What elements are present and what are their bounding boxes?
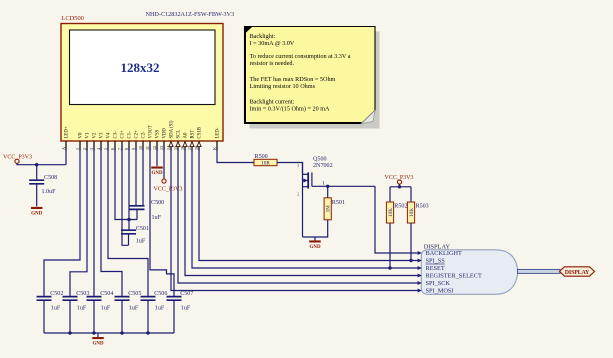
svg-text:VSS: VSS bbox=[156, 129, 161, 138]
svg-text:13: 13 bbox=[159, 146, 164, 150]
svg-text:GND: GND bbox=[309, 245, 321, 250]
svg-text:C3-: C3- bbox=[114, 131, 119, 139]
wire pin 12 VSS to ground bbox=[156, 148, 158, 166]
svg-text:2: 2 bbox=[297, 193, 299, 197]
svg-text:R503: R503 bbox=[416, 204, 429, 210]
wire R501 top lead bbox=[327, 186, 329, 198]
svg-text:1uF: 1uF bbox=[155, 305, 165, 311]
LCD pin 15 stub bbox=[177, 141, 179, 151]
wire pin 15 to SPI_SCK bbox=[178, 148, 418, 283]
svg-text:Backlight:: Backlight: bbox=[250, 33, 276, 40]
junction ground rail x=148 bbox=[146, 331, 149, 334]
svg-text:1uF: 1uF bbox=[51, 305, 61, 311]
svg-text:7: 7 bbox=[117, 148, 122, 150]
LCD pin 2 stub bbox=[86, 141, 88, 151]
svg-text:RESET: RESET bbox=[426, 265, 445, 272]
svg-text:A0: A0 bbox=[184, 132, 189, 138]
wire pin 17 to RESET bbox=[192, 148, 418, 268]
svg-text:C505: C505 bbox=[128, 291, 141, 297]
signal harness DISPLAY body bbox=[421, 250, 518, 294]
svg-text:C500: C500 bbox=[151, 200, 164, 206]
wire pin 1 to C502 bbox=[44, 148, 80, 297]
junction ground rail x=94 bbox=[92, 331, 95, 334]
junction ground rail x=122 bbox=[120, 331, 123, 334]
wire pin 16 to REGISTER_SELECT bbox=[185, 148, 418, 276]
LCD pin 8 stub bbox=[128, 141, 130, 151]
svg-text:V4: V4 bbox=[107, 132, 112, 138]
svg-text:To reduce current consumption: To reduce current consumption at 3.3V a bbox=[250, 53, 351, 60]
svg-text:VDD: VDD bbox=[163, 128, 168, 139]
harness entry arrow REGISTER_SELECT bbox=[418, 274, 422, 278]
wire R502 to RESET net bbox=[389, 223, 391, 268]
svg-text:BACKLIGHT: BACKLIGHT bbox=[426, 250, 463, 257]
wire C501 bottom lead bbox=[128, 234, 130, 246]
LCD pin 10 stub bbox=[142, 141, 144, 151]
svg-text:A: A bbox=[61, 147, 66, 150]
LCD pin 4 stub bbox=[100, 141, 102, 151]
junction gate / R501 bbox=[326, 185, 329, 188]
wire C503 bottom lead bbox=[69, 300, 71, 333]
wire pin 14 to SPI_MOSI bbox=[171, 148, 418, 291]
LCD pin 1 stub bbox=[79, 141, 81, 151]
svg-text:LED-: LED- bbox=[216, 127, 221, 138]
svg-text:8: 8 bbox=[124, 148, 129, 150]
wire pin 11 VOUT to C507 bbox=[150, 148, 174, 297]
svg-text:resistor is needed.: resistor is needed. bbox=[250, 60, 295, 67]
wire R503 to SPI_SS net bbox=[410, 223, 412, 261]
svg-text:128x32: 128x32 bbox=[121, 60, 160, 75]
svg-text:LED+: LED+ bbox=[65, 126, 70, 138]
svg-text:6: 6 bbox=[110, 148, 115, 150]
wire pin 18 to SPI_SS bbox=[199, 148, 418, 261]
LCD pin 18 input arrow bbox=[197, 142, 201, 147]
ground symbol Q500 source bbox=[309, 240, 321, 250]
junction ground rail x=70 bbox=[68, 331, 71, 334]
svg-text:C501: C501 bbox=[136, 226, 149, 232]
svg-text:SDA (SI): SDA (SI) bbox=[170, 120, 175, 138]
wire C505 bottom lead bbox=[121, 300, 123, 333]
wire capacitor bank ground rail bbox=[44, 332, 174, 334]
power port VCC_P3V3 (left) circle bbox=[15, 159, 19, 163]
capacitor C501 bbox=[121, 230, 136, 234]
harness entry arrow RESET bbox=[418, 266, 422, 270]
svg-text:REGISTER_SELECT: REGISTER_SELECT bbox=[426, 273, 482, 280]
svg-text:2N7002: 2N7002 bbox=[313, 163, 333, 169]
LCD pin 14 stub bbox=[170, 141, 172, 151]
ground symbol below C508 bbox=[31, 207, 43, 217]
harness entry arrow SPI_SS bbox=[418, 259, 422, 263]
harness entry arrow SPI_SCK bbox=[418, 281, 422, 285]
svg-text:10R: 10R bbox=[261, 160, 270, 166]
power port VCC_P3V3 (right) circle bbox=[397, 180, 401, 184]
wire pin 8 to C501 top bbox=[128, 148, 130, 230]
note corner fold top-left bbox=[245, 27, 253, 35]
svg-text:Imin = 0.3V/(15 Ohm) = 20 mA: Imin = 0.3V/(15 Ohm) = 20 mA bbox=[250, 105, 331, 112]
svg-text:2: 2 bbox=[82, 148, 87, 150]
svg-text:GND: GND bbox=[151, 171, 163, 176]
LCD pin 9 stub bbox=[135, 141, 137, 151]
wire pin 3 to C504 bbox=[93, 148, 95, 297]
capacitor C504 bbox=[87, 297, 102, 301]
svg-text:10K: 10K bbox=[409, 208, 415, 217]
svg-text:V3: V3 bbox=[100, 132, 105, 138]
svg-text:C502: C502 bbox=[50, 291, 63, 297]
svg-text:R502: R502 bbox=[394, 204, 407, 210]
junction R503 / SPI_SS bbox=[409, 259, 412, 262]
LCD pin 3 stub bbox=[93, 141, 95, 151]
svg-text:10K: 10K bbox=[388, 208, 394, 217]
capacitor C508 bbox=[29, 180, 44, 184]
svg-text:1: 1 bbox=[75, 148, 80, 150]
resistor R503 bbox=[407, 202, 414, 223]
svg-text:4: 4 bbox=[96, 148, 101, 150]
harness entry arrow SPI_MOSI bbox=[418, 289, 422, 293]
svg-text:12: 12 bbox=[152, 146, 157, 150]
transistor Q500 2N7002 symbol bbox=[303, 163, 312, 238]
resistor R502 bbox=[386, 202, 393, 223]
LCD pin 12 stub bbox=[156, 141, 158, 151]
svg-text:CS1B: CS1B bbox=[198, 127, 203, 138]
svg-text:C1-: C1- bbox=[128, 131, 133, 139]
svg-text:V2: V2 bbox=[93, 132, 98, 138]
svg-text:3: 3 bbox=[297, 164, 299, 168]
LCD pin 17 stub bbox=[191, 141, 193, 151]
LCD pin A stub bbox=[65, 141, 67, 151]
svg-text:9: 9 bbox=[131, 148, 136, 150]
wire R501 bottom to source bbox=[303, 220, 328, 237]
junction R502 / RESET bbox=[388, 266, 391, 269]
svg-text:LCD500: LCD500 bbox=[62, 15, 84, 22]
harness connector DISPLAY hexagon bbox=[560, 267, 595, 276]
svg-text:1uF: 1uF bbox=[136, 238, 146, 244]
power port VCC_P3V3 (middle) circle bbox=[162, 179, 166, 183]
svg-text:GND: GND bbox=[92, 342, 104, 347]
wire C508 top lead bbox=[36, 165, 38, 181]
svg-text:3: 3 bbox=[89, 148, 94, 150]
LCD pin K stub bbox=[216, 141, 218, 151]
svg-text:1uF: 1uF bbox=[77, 305, 87, 311]
svg-text:K: K bbox=[212, 147, 217, 150]
LCD pin 13 stub bbox=[163, 141, 165, 151]
LCD pin 14 input arrow bbox=[169, 142, 173, 147]
junction pin 8 net / C500 bottom bbox=[127, 218, 130, 221]
svg-text:C508: C508 bbox=[44, 175, 57, 181]
svg-text:11: 11 bbox=[145, 146, 150, 150]
svg-text:I = 30mA @ 3.0V: I = 30mA @ 3.0V bbox=[250, 40, 295, 47]
capacitor C503 bbox=[63, 297, 78, 301]
svg-text:SPI_MOSI: SPI_MOSI bbox=[426, 288, 454, 295]
capacitor C507 bbox=[167, 297, 182, 301]
note corner curl bottom-right bbox=[362, 111, 376, 124]
LCD pin 5 stub bbox=[107, 141, 109, 151]
wire VCC_P3V3 to LED+ pin A bbox=[17, 163, 66, 164]
wire C507 bottom lead bbox=[173, 300, 175, 333]
svg-text:R501: R501 bbox=[332, 200, 345, 206]
svg-text:V1: V1 bbox=[86, 132, 91, 138]
LCD glass area bbox=[70, 30, 216, 105]
harness entry arrow BACKLIGHT bbox=[418, 251, 422, 255]
svg-text:SPI_SCK: SPI_SCK bbox=[426, 280, 451, 287]
capacitor C502 bbox=[37, 297, 52, 301]
wire C500 bottom lead bbox=[136, 209, 138, 219]
svg-text:GND: GND bbox=[31, 212, 43, 217]
resistor R501 bbox=[324, 198, 331, 220]
svg-text:VOUT: VOUT bbox=[149, 125, 154, 138]
wire C508 bottom lead bbox=[36, 184, 38, 207]
svg-text:The FET has max RDSon = 5Ohm: The FET has max RDSon = 5Ohm bbox=[250, 76, 336, 83]
wire pin 4 to C505 bbox=[101, 148, 122, 297]
svg-text:C507: C507 bbox=[180, 291, 193, 297]
wire pin 6 / C500 bottom net bbox=[115, 148, 137, 220]
LCD pin 6 stub bbox=[114, 141, 116, 151]
LCD pin 16 input arrow bbox=[183, 142, 187, 147]
svg-text:C2-: C2- bbox=[142, 131, 147, 139]
wire R500 to Q500 drain bbox=[277, 163, 303, 175]
LCD pin 17 input arrow bbox=[190, 142, 194, 147]
svg-text:5: 5 bbox=[103, 148, 108, 150]
wire C502 bottom lead bbox=[43, 300, 45, 333]
resistor R500 body bbox=[254, 159, 277, 165]
svg-text:1: 1 bbox=[322, 181, 325, 187]
LCD module LCD500 body bbox=[61, 24, 223, 142]
LCD pin 18 stub bbox=[198, 141, 200, 151]
svg-text:1uF: 1uF bbox=[101, 305, 111, 311]
wire C506 bottom lead bbox=[147, 300, 149, 333]
wire R502 top lead bbox=[389, 187, 391, 202]
wire pin A LED+ down bbox=[65, 148, 67, 165]
svg-text:SPI_SS: SPI_SS bbox=[426, 258, 446, 265]
wire pin 2 to C503 bbox=[70, 148, 87, 297]
svg-text:C504: C504 bbox=[100, 291, 113, 297]
note shadow bbox=[250, 32, 380, 129]
svg-text:Limiting resistor 10 Ohms: Limiting resistor 10 Ohms bbox=[250, 83, 316, 90]
svg-text:SCL: SCL bbox=[177, 130, 182, 139]
svg-text:C1+: C1+ bbox=[121, 130, 126, 139]
capacitor C506 bbox=[141, 297, 156, 301]
svg-text:1M: 1M bbox=[326, 205, 332, 213]
LCD pin 7 stub bbox=[121, 141, 123, 151]
svg-text:NHD-C12832A1Z-FSW-FBW-3V3: NHD-C12832A1Z-FSW-FBW-3V3 bbox=[146, 11, 235, 18]
wire Q500 gate to BACKLIGHT net bbox=[312, 185, 375, 187]
wire pin 10 to C500 top bbox=[142, 148, 144, 206]
wire pin 9 to C500 top bbox=[135, 148, 137, 206]
wire BACKLIGHT net to harness bbox=[375, 186, 418, 253]
note bottom border bbox=[245, 122, 362, 124]
wire ground rail to ground symbol bbox=[97, 333, 99, 337]
svg-text:1.0uF: 1.0uF bbox=[42, 189, 57, 195]
svg-text:1uF: 1uF bbox=[129, 305, 139, 311]
svg-text:DISPLAY: DISPLAY bbox=[565, 270, 590, 276]
svg-text:V0: V0 bbox=[79, 132, 84, 138]
wire pin 7 to C501 bottom bbox=[122, 148, 129, 245]
wire to ground symbol Q500 bbox=[314, 237, 316, 240]
svg-text:1uF: 1uF bbox=[181, 305, 191, 311]
wire R503 top lead bbox=[410, 187, 412, 202]
wire VCC split bbox=[390, 186, 411, 188]
svg-text:C506: C506 bbox=[154, 291, 167, 297]
note N500 body bbox=[245, 27, 376, 124]
wire pin 13 VDD to power bbox=[163, 148, 165, 179]
svg-text:10: 10 bbox=[138, 146, 143, 150]
LCD pin 11 stub bbox=[149, 141, 151, 151]
svg-text:C2+: C2+ bbox=[135, 130, 140, 139]
wire VCC stem bbox=[399, 184, 401, 187]
wire C504 bottom lead bbox=[93, 300, 95, 333]
capacitor C505 bbox=[115, 297, 130, 301]
harness cable bbox=[518, 269, 561, 273]
svg-text:R500: R500 bbox=[255, 154, 268, 160]
ground symbol pin 12 bbox=[151, 167, 163, 177]
LCD pin 16 stub bbox=[184, 141, 186, 151]
wire pin K LED- to R500 bbox=[217, 148, 254, 163]
LCD pin 15 input arrow bbox=[176, 142, 180, 147]
svg-text:Backlight current:: Backlight current: bbox=[250, 98, 295, 105]
svg-text:1uF: 1uF bbox=[152, 215, 162, 221]
note left border bbox=[244, 27, 246, 124]
svg-text:Q500: Q500 bbox=[313, 157, 327, 163]
svg-text:RST: RST bbox=[191, 130, 196, 139]
wire pin 5 to C506 bbox=[108, 148, 148, 297]
junction VCC / C508 bbox=[35, 163, 38, 166]
capacitor C500 bbox=[130, 206, 145, 210]
ground symbol capacitor bank bbox=[92, 337, 104, 347]
junction VCC split bbox=[398, 185, 401, 188]
